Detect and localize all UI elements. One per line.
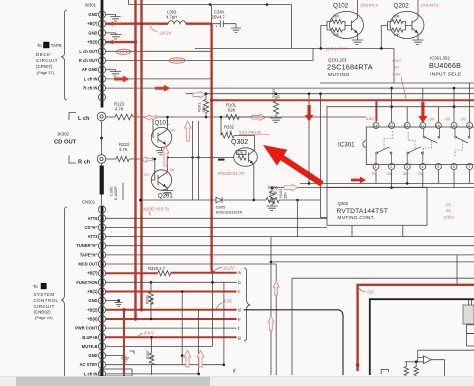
svg-text:MCD OUT: MCD OUT xyxy=(78,262,98,267)
feedback wire xyxy=(418,350,474,376)
signal arrow on R ch IN red xyxy=(155,85,171,92)
svg-text:+B(3): +B(3) xyxy=(87,40,98,45)
svg-text:0V: 0V xyxy=(171,128,176,133)
scrollbar top edge xyxy=(0,375,474,378)
resistor R102 vertical xyxy=(269,188,274,206)
signal arrow on L ch IN red xyxy=(114,76,130,83)
wire R332 left join to rail xyxy=(220,117,222,136)
red probe arrow down at pin11 xyxy=(418,102,427,123)
svg-text:0V: 0V xyxy=(170,167,175,172)
connector W301 cable spine xyxy=(101,0,104,108)
svg-text:a: a xyxy=(238,271,241,276)
Q101 emitter wire xyxy=(161,148,163,151)
svg-text:6: 6 xyxy=(453,165,455,169)
wire L303 to node red xyxy=(186,23,212,25)
svg-text:R ch OUT: R ch OUT xyxy=(79,58,98,63)
brace for node letters xyxy=(244,268,250,341)
IC301 bottom pin circles xyxy=(373,164,473,170)
svg-text:4.7K: 4.7K xyxy=(119,147,128,152)
wire TAPE H row xyxy=(106,254,474,256)
svg-text:L ch OUT: L ch OUT xyxy=(79,49,98,54)
svg-text:16: 16 xyxy=(100,253,104,257)
svg-text:5: 5 xyxy=(101,354,103,358)
svg-text:3: 3 xyxy=(406,165,408,169)
svg-text:PAUSE:61.7V: PAUSE:61.7V xyxy=(218,171,244,176)
Q202 base feed xyxy=(381,22,392,49)
svg-text:21: 21 xyxy=(100,208,104,212)
wire pin10 GND xyxy=(106,14,116,16)
svg-text:10K: 10K xyxy=(394,15,401,19)
svg-text:RVTDTA144TST: RVTDTA144TST xyxy=(337,208,389,215)
svg-text:7: 7 xyxy=(101,336,103,340)
resistor R202 vertical xyxy=(273,96,278,118)
Q102 collector to top xyxy=(357,0,359,13)
wire pin2 R ch IN rail xyxy=(106,87,474,89)
resistor R332 xyxy=(221,133,255,138)
svg-text:GND: GND xyxy=(88,30,97,35)
svg-text:1: 1 xyxy=(101,96,103,100)
svg-text:9: 9 xyxy=(453,124,455,128)
svg-text:(CP607): (CP607) xyxy=(36,64,53,69)
svg-text:6: 6 xyxy=(101,345,103,349)
wire MCD OUT row xyxy=(106,264,277,375)
Q201 collector wire xyxy=(166,158,168,174)
wire +B(2) row red xyxy=(106,309,237,311)
svg-text:(CNB02): (CNB02) xyxy=(34,310,52,315)
wire pin13 up xyxy=(391,88,393,122)
svg-text:B.UP+B: B.UP+B xyxy=(82,335,97,340)
svg-text:MUTING CONT.: MUTING CONT. xyxy=(338,215,375,220)
svg-text:0V: 0V xyxy=(430,118,435,122)
wire AC STBY row xyxy=(106,364,224,366)
svg-text:IC301: IC301 xyxy=(338,142,355,149)
voltage 16.2V red xyxy=(214,268,222,272)
svg-text:82K: 82K xyxy=(201,105,206,112)
svg-text:C306: C306 xyxy=(109,187,113,196)
wire pin7 +B(3) red xyxy=(106,41,136,43)
red supply trace bottom right xyxy=(358,285,474,371)
flow arrow hollow up near Q201 xyxy=(162,146,169,166)
voltage label -14.2V xyxy=(150,26,157,32)
wire R223 to Q201 base xyxy=(129,159,155,180)
wire stub x123 xyxy=(122,183,124,200)
rail y183.4 xyxy=(300,182,474,184)
voltage 4.2V red xyxy=(216,303,222,309)
wire pin11 stub xyxy=(422,88,424,103)
corner glyph xyxy=(381,370,388,375)
svg-text:TUNER”H”: TUNER”H” xyxy=(76,243,97,248)
svg-text:0V: 0V xyxy=(446,203,451,207)
svg-text:PWR CONT: PWR CONT xyxy=(75,326,98,331)
svg-text:1: 1 xyxy=(42,284,45,289)
Q202 collector to top xyxy=(417,0,419,13)
resistor R333 vertical xyxy=(149,282,154,319)
wire GND2 row xyxy=(106,356,129,362)
capacitor C340 xyxy=(212,21,236,28)
node junction on collector line xyxy=(191,156,193,158)
node Q201 collector xyxy=(166,156,169,159)
wire bottom row xyxy=(106,373,200,375)
svg-text:4.8V: 4.8V xyxy=(366,117,374,121)
svg-text:CIRCUIT: CIRCUIT xyxy=(34,304,55,309)
flow arrow hollow right on rail187 xyxy=(284,184,298,191)
connector footprint bottom left xyxy=(100,369,132,376)
svg-text:14: 14 xyxy=(100,272,104,276)
rail y117 xyxy=(226,116,366,118)
flow arrow hollow up bottom 2 xyxy=(197,351,204,368)
connector CN301 cable spine xyxy=(101,206,104,378)
ground at Q101 xyxy=(156,151,167,155)
node red crossing xyxy=(140,22,143,25)
svg-text:L ch IN: L ch IN xyxy=(84,76,98,81)
svg-text:L ch: L ch xyxy=(78,116,90,122)
big red annotation arrow xyxy=(263,145,324,187)
transistor Q302 digital xyxy=(234,148,258,166)
label: To 1 SYSTEM CONTROL CIRCUIT text block xyxy=(33,283,59,320)
IC301 body xyxy=(338,127,474,165)
voltage 4.9V red xyxy=(138,334,143,338)
wire box to rail 2 xyxy=(402,225,404,236)
svg-text:R329 2.7: R329 2.7 xyxy=(148,266,166,271)
svg-text:W301: W301 xyxy=(85,3,97,8)
svg-text:CD”H”: CD”H” xyxy=(85,225,98,230)
svg-text:-14.2V: -14.2V xyxy=(159,31,172,36)
flow arrow hollow up bottom 1 xyxy=(184,351,191,368)
ground at GND row xyxy=(115,301,123,307)
svg-text:15: 15 xyxy=(100,263,104,267)
svg-text:L ch IN: L ch IN xyxy=(84,371,98,376)
svg-text:9: 9 xyxy=(101,22,103,26)
svg-text:MUTE.B: MUTE.B xyxy=(82,344,98,349)
svg-text:3.5K: 3.5K xyxy=(150,297,154,305)
svg-text:+B(7): +B(7) xyxy=(87,271,98,276)
wire pin4 AF GND xyxy=(106,69,116,71)
svg-text:DECK: DECK xyxy=(36,52,51,57)
svg-text:4: 4 xyxy=(101,363,103,367)
svg-text:K.1000P: K.1000P xyxy=(114,186,118,200)
svg-text:8: 8 xyxy=(101,31,103,35)
wire vertical mid 1 xyxy=(192,121,194,200)
flow arrow hollow right on rail117 xyxy=(252,114,266,121)
wire ATT3 row xyxy=(106,236,474,238)
svg-text:2: 2 xyxy=(390,165,392,169)
svg-text:(4.5V) ATLS: (4.5V) ATLS xyxy=(326,46,347,51)
svg-text:10K: 10K xyxy=(333,15,340,19)
node Q101 collector xyxy=(166,116,169,119)
svg-text:+: + xyxy=(216,25,218,29)
wires bottom pins down xyxy=(376,170,470,188)
svg-text:TAPE”H”: TAPE”H” xyxy=(80,252,98,257)
muting cont box xyxy=(327,187,427,225)
ground at pin4 xyxy=(110,70,121,76)
svg-text:0V: 0V xyxy=(461,118,466,122)
ground at C340 xyxy=(231,24,241,33)
Q302 emitter wire xyxy=(252,164,255,201)
vertical black x212.5 xyxy=(212,273,214,347)
small stub gnd glyph xyxy=(130,351,135,354)
flow arrow hollow up near red bus xyxy=(185,121,192,141)
svg-text:~5V: ~5V xyxy=(366,290,374,295)
svg-text:4.2V: 4.2V xyxy=(223,299,232,304)
svg-text:IC301,302: IC301,302 xyxy=(430,56,450,61)
svg-text:GND: GND xyxy=(88,298,97,303)
svg-text:18: 18 xyxy=(100,235,104,239)
flow arrow hollow left xyxy=(145,115,157,120)
red branch vertical x124 xyxy=(123,310,125,377)
svg-text:1 K: 1 K xyxy=(226,130,232,135)
wire FUNCTION row xyxy=(106,281,237,283)
wire ATT6 row xyxy=(106,217,327,219)
svg-text:12: 12 xyxy=(405,124,409,128)
svg-text:FUNCTION: FUNCTION xyxy=(76,280,97,285)
svg-text:BU4066B: BU4066B xyxy=(429,61,461,70)
amplifier block box xyxy=(370,299,474,375)
red bus vertical A xyxy=(134,0,136,319)
node opamp input xyxy=(415,360,418,363)
svg-text:AF GND: AF GND xyxy=(82,67,98,72)
wire Q201 collector to Q302 base xyxy=(169,157,235,159)
connector W301 pin labels xyxy=(79,12,98,91)
wire +B(7) row red with resistor R329 xyxy=(106,272,158,274)
svg-text:0V: 0V xyxy=(372,172,377,176)
wire pin8 GND xyxy=(106,32,116,34)
resistor R305 xyxy=(266,197,321,202)
svg-text:14: 14 xyxy=(373,124,377,128)
svg-text:(0V) ATLS: (0V) ATLS xyxy=(361,3,379,8)
vertical black x223.9 xyxy=(223,282,225,364)
base stub mark Q302 xyxy=(218,159,225,161)
svg-text:15K: 15K xyxy=(283,192,288,199)
wire vertical mid 2 xyxy=(198,121,200,200)
svg-text:CIRCUIT: CIRCUIT xyxy=(36,58,58,63)
svg-text:4: 4 xyxy=(422,165,424,169)
svg-text:16.2V: 16.2V xyxy=(223,266,234,271)
svg-text:8: 8 xyxy=(101,327,103,331)
svg-text:19: 19 xyxy=(100,226,104,230)
svg-text:R ch IN: R ch IN xyxy=(83,86,97,91)
svg-text:TA: TA xyxy=(233,368,237,373)
svg-text:JK302: JK302 xyxy=(57,132,70,137)
svg-text:10: 10 xyxy=(100,13,104,17)
wire node to C340 xyxy=(211,5,213,24)
scrollbar track xyxy=(0,376,474,386)
top frame wire xyxy=(129,0,395,83)
component at right edge xyxy=(469,300,472,324)
node junction on collector line 2 xyxy=(197,156,199,158)
red bus end junctions xyxy=(134,317,137,320)
svg-text:3: 3 xyxy=(101,372,103,376)
resistor R101 xyxy=(226,114,272,119)
wire rail to muting box xyxy=(321,94,328,218)
wire MUTE.B row xyxy=(106,345,213,347)
svg-text:5: 5 xyxy=(101,59,103,63)
red bus vertical C with bend to node a xyxy=(212,24,215,273)
svg-text:0V: 0V xyxy=(403,172,408,176)
wire pin12 from box xyxy=(406,107,408,122)
svg-text:60V?: 60V? xyxy=(393,58,403,63)
input selector section box xyxy=(327,107,474,188)
svg-text:9: 9 xyxy=(101,318,103,322)
svg-text:+B(1): +B(1) xyxy=(87,289,98,294)
svg-text:3: 3 xyxy=(101,77,103,81)
vertical x292 with corner xyxy=(292,278,474,375)
svg-text:R ch: R ch xyxy=(78,160,91,166)
red probe arrow down mid xyxy=(305,105,314,122)
svg-text:Q302: Q302 xyxy=(338,201,349,206)
wire pin9 +B(7) red xyxy=(106,23,168,25)
svg-text:0V: 0V xyxy=(446,118,451,122)
IC301 top pin circles xyxy=(373,123,473,129)
Q102 emitter ground xyxy=(352,33,363,44)
node on top frame xyxy=(209,3,212,6)
svg-text:25V4.7: 25V4.7 xyxy=(212,15,226,20)
svg-text:CD OUT: CD OUT xyxy=(54,140,77,146)
svg-text:Q102: Q102 xyxy=(333,3,349,10)
jack ground bus xyxy=(101,121,103,205)
svg-text:0V: 0V xyxy=(134,112,139,117)
svg-text:To: To xyxy=(37,43,42,48)
connector W301 pins with numbers xyxy=(98,11,105,101)
svg-text:6: 6 xyxy=(101,50,103,54)
scrollbar thumb xyxy=(16,377,210,386)
svg-text:(Page 24): (Page 24) xyxy=(35,315,53,320)
svg-text:0V: 0V xyxy=(446,209,451,213)
svg-text:Q302: Q302 xyxy=(231,139,248,146)
node at red bus xyxy=(139,199,142,202)
svg-text:CN301: CN301 xyxy=(82,200,96,205)
node on top frame right xyxy=(266,3,269,6)
label: To C TAPE DECK CIRCUIT text block xyxy=(36,42,62,75)
transistor Q101 xyxy=(151,121,171,148)
svg-text:10: 10 xyxy=(100,308,104,312)
IC301 internal switches xyxy=(376,128,470,163)
svg-text:7: 7 xyxy=(101,41,103,45)
svg-text:GND: GND xyxy=(88,12,97,17)
rail y93.7 xyxy=(186,93,474,95)
svg-text:CONTROL: CONTROL xyxy=(34,298,59,303)
svg-text:17: 17 xyxy=(100,244,104,248)
Q201 emitter ground xyxy=(162,187,173,195)
signal arrow into pin9 xyxy=(108,22,123,26)
wire jack L to R123 xyxy=(106,116,115,118)
svg-text:4.7µH: 4.7µH xyxy=(166,15,177,20)
svg-text:ATT3: ATT3 xyxy=(88,234,99,239)
jack L ch xyxy=(97,112,106,121)
svg-text:SYSTEM: SYSTEM xyxy=(34,292,55,297)
wire TUNER H row xyxy=(106,245,474,247)
signal arrow into pin7 xyxy=(108,40,123,44)
svg-text:(Page 27): (Page 27) xyxy=(37,70,55,75)
wire CD H row xyxy=(106,226,327,228)
wire node d routed down xyxy=(244,310,344,375)
svg-text:10K: 10K xyxy=(333,33,340,37)
resistor amp 2 xyxy=(414,362,418,376)
flow arrow hollow left R ch xyxy=(141,157,153,162)
node Q302 emitter on D line xyxy=(253,199,256,202)
ground at pin8 xyxy=(110,33,121,39)
svg-text:AC STBY: AC STBY xyxy=(80,362,98,367)
node red feed xyxy=(210,99,213,102)
svg-text:47K: 47K xyxy=(237,151,244,155)
red feed wire to pin14 xyxy=(212,100,474,121)
voltage 5V red xyxy=(359,288,365,292)
svg-text:0V: 0V xyxy=(419,172,424,176)
flow arrow hollow up on x271 xyxy=(268,317,274,331)
svg-text:1K: 1K xyxy=(276,94,281,99)
svg-text:1K: 1K xyxy=(150,355,154,360)
vertical black x182 xyxy=(181,292,183,365)
svg-text:+B(2): +B(2) xyxy=(87,307,98,312)
wire input left xyxy=(405,361,412,363)
wire rail to supply corner xyxy=(456,255,458,285)
svg-text:D305: D305 xyxy=(216,206,225,210)
wire D305 line left xyxy=(141,199,216,201)
svg-text:2SC1684RTA: 2SC1684RTA xyxy=(327,63,373,72)
svg-text:(0V) ATLS: (0V) ATLS xyxy=(421,3,439,8)
node at R305 right xyxy=(296,199,299,202)
svg-text:4.9 V: 4.9 V xyxy=(144,331,154,336)
svg-text:0V: 0V xyxy=(388,172,393,176)
rail y83 xyxy=(320,82,474,84)
wire R332 to Q302 collector xyxy=(254,136,255,152)
Q202 emitter ground xyxy=(412,33,423,44)
svg-text:82K: 82K xyxy=(228,108,236,113)
wire jack R to R223 xyxy=(106,158,116,160)
svg-text:Q201: Q201 xyxy=(158,194,173,200)
svg-text:PAUSE:+6.0.7V: PAUSE:+6.0.7V xyxy=(140,207,170,212)
wire R123 onward xyxy=(133,117,226,138)
svg-text:5: 5 xyxy=(437,165,439,169)
svg-text:TAPE: TAPE xyxy=(51,43,62,48)
svg-text:ATT6: ATT6 xyxy=(88,216,99,221)
brace for tape deck connector xyxy=(61,10,67,100)
junction node +B(3) to red bus xyxy=(134,40,137,43)
vertical black x198.6 xyxy=(198,310,200,374)
transistor Q201 xyxy=(151,170,173,200)
wire pin6 L ch OUT xyxy=(106,50,212,52)
wire pin10 from box xyxy=(437,107,439,122)
transistor Q102 digital xyxy=(330,3,364,39)
svg-text:13: 13 xyxy=(389,124,393,128)
connector CN301 pin labels xyxy=(75,216,98,377)
transistor Q202 digital xyxy=(390,3,424,39)
resistor R223 xyxy=(116,156,129,161)
svg-text:+B(6): +B(6) xyxy=(87,317,98,322)
svg-text:(4.8V): (4.8V) xyxy=(444,216,455,220)
wire GND row xyxy=(106,300,119,302)
diode D305 xyxy=(216,197,266,203)
svg-text:10: 10 xyxy=(436,124,440,128)
test point oval on R ch OUT xyxy=(169,58,185,63)
svg-text:g: g xyxy=(238,336,241,341)
svg-text:d: d xyxy=(238,308,241,314)
wire pin5 R ch OUT xyxy=(106,48,313,60)
capacitor C306 body xyxy=(100,166,104,195)
Q101 collector wire xyxy=(166,117,168,131)
brace for system control connector xyxy=(61,207,67,380)
svg-text:RVD1SS133TA: RVD1SS133TA xyxy=(216,211,242,215)
svg-text:10K: 10K xyxy=(394,33,401,37)
svg-text:11: 11 xyxy=(100,299,104,303)
opamp xyxy=(412,356,445,364)
svg-text:4.8V: 4.8V xyxy=(393,72,401,77)
svg-text:To: To xyxy=(33,284,38,289)
wire box to rail 1 xyxy=(351,225,353,236)
svg-text:0V: 0V xyxy=(395,65,400,70)
svg-text:7: 7 xyxy=(468,165,470,169)
resistor amp 1 xyxy=(404,362,408,376)
ground at pin10 xyxy=(110,15,120,22)
